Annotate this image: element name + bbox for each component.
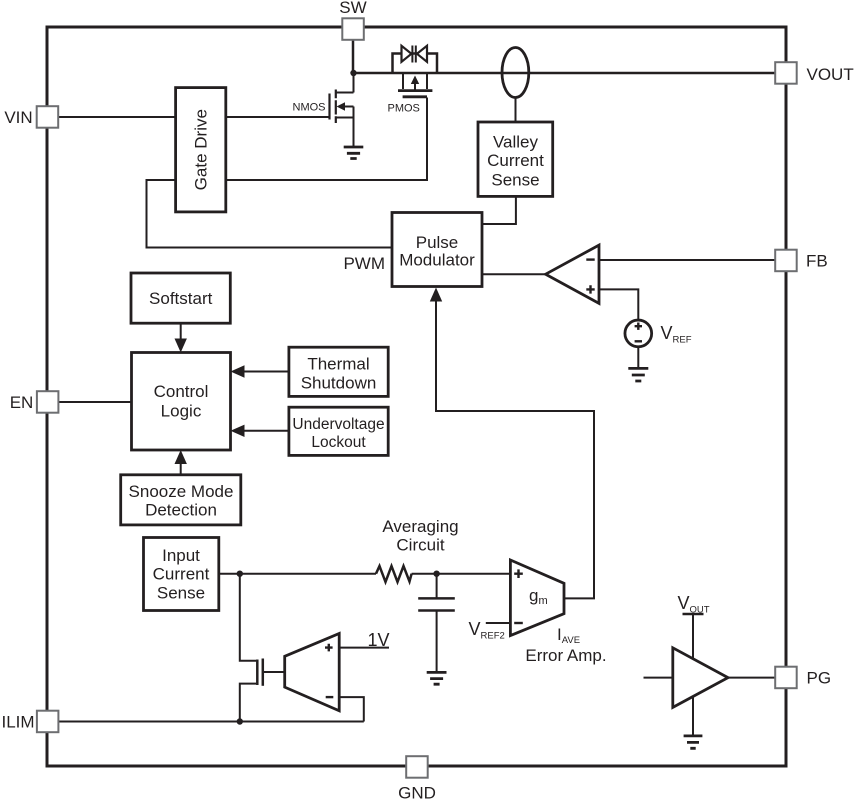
svg-text:Sense: Sense [157, 583, 205, 602]
svg-text:Averaging: Averaging [382, 517, 458, 536]
svg-text:Gate Drive: Gate Drive [192, 109, 211, 190]
svg-text:Logic: Logic [161, 402, 202, 421]
svg-text:GND: GND [398, 784, 436, 799]
svg-text:Input: Input [162, 546, 200, 565]
svg-text:SW: SW [339, 0, 366, 17]
svg-text:Modulator: Modulator [399, 250, 475, 269]
svg-text:VIN: VIN [4, 108, 32, 127]
svg-text:Undervoltage: Undervoltage [292, 416, 384, 433]
svg-text:NMOS: NMOS [293, 102, 326, 114]
svg-text:ILIM: ILIM [1, 713, 34, 732]
svg-text:PWM: PWM [343, 254, 385, 273]
svg-text:VOUT: VOUT [807, 65, 854, 84]
svg-text:Snooze Mode: Snooze Mode [129, 482, 234, 501]
svg-text:Valley: Valley [493, 132, 539, 151]
svg-text:Control: Control [154, 382, 209, 401]
svg-text:Current: Current [487, 151, 544, 170]
svg-text:Thermal: Thermal [307, 354, 369, 373]
svg-text:Shutdown: Shutdown [301, 373, 377, 392]
svg-text:Circuit: Circuit [396, 536, 444, 555]
svg-text:Softstart: Softstart [149, 289, 213, 308]
svg-text:Sense: Sense [491, 171, 539, 190]
svg-text:FB: FB [806, 252, 828, 271]
svg-text:Detection: Detection [145, 501, 217, 520]
svg-text:Current: Current [153, 564, 210, 583]
svg-text:Lockout: Lockout [311, 434, 366, 451]
svg-text:PG: PG [807, 669, 832, 688]
svg-text:EN: EN [10, 393, 34, 412]
svg-text:PMOS: PMOS [388, 103, 420, 115]
svg-text:Pulse: Pulse [416, 233, 459, 252]
svg-text:1V: 1V [368, 630, 390, 650]
svg-text:Error Amp.: Error Amp. [525, 646, 606, 665]
